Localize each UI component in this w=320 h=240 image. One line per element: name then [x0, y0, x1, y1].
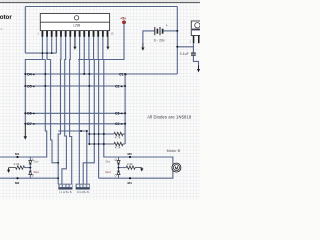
connector J2 (motor B) — [76, 184, 90, 194]
right rail x=125.1 — [124, 74, 126, 144]
chip U1 pins (15) — [42, 31, 109, 37]
wire: pin3 down to net1 — [51, 37, 53, 54]
svg-text:D6◄: D6◄ — [27, 112, 35, 116]
wire: pin12 down, jog left, to connector J2 — [83, 37, 94, 185]
wire: top loop horizontal — [25, 6, 177, 8]
svg-text:4.7k: 4.7k — [115, 136, 121, 140]
tiny LED arrows — [32, 159, 34, 161]
ground symbol at bottom of left rail — [24, 124, 27, 140]
wire from LED mid to resistor R3 — [25, 167, 31, 169]
LED D2 Red — [29, 171, 32, 174]
junction dot + label M2 on bottom wire — [16, 177, 18, 179]
svg-text:L298: L298 — [73, 24, 80, 28]
connector J2 feed from mid net — [86, 131, 88, 184]
junction dots on left rail — [24, 73, 26, 125]
svg-text:C4◄: C4◄ — [115, 122, 123, 126]
svg-text:C2◄: C2◄ — [115, 84, 123, 88]
wire: pin13 down to right LED bottom wire corner — [97, 37, 99, 179]
connector J1 (motor A) — [59, 184, 73, 194]
svg-text:2.2k: 2.2k — [14, 162, 20, 166]
svg-text:All Diodes are 1N5818: All Diodes are 1N5818 — [147, 114, 192, 119]
junction dots on right rail — [124, 73, 126, 125]
net D long wire y=123.8 — [25, 123, 125, 125]
svg-text:+: + — [166, 24, 168, 28]
svg-text:4.7k: 4.7k — [115, 146, 121, 150]
svg-text:Red: Red — [34, 170, 40, 174]
window top strip — [0, 0, 200, 2]
pullup resistor net R1 y=134 — [88, 132, 125, 139]
junction dot + label M1 on top wire — [16, 156, 18, 158]
battery plates — [154, 27, 156, 35]
net label flags near right rail — [115, 72, 127, 126]
wire: right rail of loop from top to net A corner — [176, 7, 178, 75]
LED pair D3/D4 (anti-parallel, right) — [115, 157, 120, 178]
resistor R3 2.2k left — [9, 166, 25, 169]
svg-text:Red: Red — [106, 170, 112, 174]
connector J2 pin labels — [77, 192, 90, 194]
capacitor C1 0.1uF — [180, 43, 200, 72]
mid net y=131 feeding connector J2 — [58, 130, 87, 132]
window top border line — [0, 2, 200, 3]
svg-text:B-: B- — [70, 192, 73, 194]
battery BT1 — [141, 24, 178, 51]
motor M (Motor B) — [167, 149, 181, 172]
svg-text:Grn: Grn — [34, 159, 39, 163]
ground symbol below cap — [198, 66, 200, 70]
LED pair D1/D2 (anti-parallel, left) — [29, 157, 34, 178]
wire: right motor bottom wire y=178.2 to motor B — [99, 170, 173, 178]
wire: pin10 down, ends at net A junction — [83, 37, 85, 74]
svg-text:Grn: Grn — [106, 159, 111, 163]
wire: net1 y=53.1 from left rail to pin4 — [25, 52, 56, 54]
wire: regulator input from battery rail — [177, 46, 193, 48]
wire: pin5 down, jog at mid net, to connector J1 — [58, 37, 61, 185]
LED D1 Grn — [29, 161, 32, 164]
connector J1 pin labels — [60, 192, 73, 194]
svg-text:2.2k: 2.2k — [127, 162, 133, 166]
wire: left rail top segment down to net1 — [24, 7, 26, 54]
battery left wire with corner down — [143, 31, 155, 44]
resistor R2 4.7k zigzag — [114, 142, 125, 145]
chip U1 mounting hole — [74, 16, 78, 20]
junction dots + labels M3/M4 — [129, 156, 131, 158]
ground symbol below pin15 — [106, 37, 109, 50]
svg-text:+5v: +5v — [120, 17, 126, 21]
battery right wire — [164, 30, 178, 32]
svg-text:B-: B- — [87, 192, 90, 194]
svg-text:D5◄: D5◄ — [27, 84, 35, 88]
svg-text:Motor B: Motor B — [167, 149, 181, 153]
wire: +5v down to jog row, left along jog row — [78, 24, 124, 60]
net label flags on left rail — [27, 72, 35, 126]
net A long wire y=74 — [25, 73, 177, 75]
resistor R1 4.7k zigzag — [114, 132, 125, 135]
svg-text:6 - 26v: 6 - 26v — [154, 39, 165, 43]
wire: pin4 down to net1 end — [55, 37, 57, 54]
svg-text:M1: M1 — [15, 152, 19, 156]
pullup resistor net R2 y=144 — [88, 142, 125, 149]
svg-text:D7◄: D7◄ — [27, 122, 35, 126]
junction dots where pin wires end on nets — [42, 52, 91, 179]
wire: pin2 down with jogs to left LED bottom wire corner — [0, 37, 58, 179]
paper background — [0, 0, 200, 200]
resistor R4 2.2k right — [126, 166, 142, 169]
wire: net2 y=59.5 from pin1 vertical to left rail corner, rail down — [25, 60, 45, 124]
svg-text:M3: M3 — [128, 152, 132, 156]
ground symbol right circuit — [140, 168, 143, 172]
svg-text:M2: M2 — [15, 181, 19, 185]
net B long wire y=86 — [25, 85, 125, 87]
regulator U2 pins — [193, 36, 195, 44]
ground symbol below battery minus — [142, 44, 144, 48]
chip U1 L298 body — [37, 14, 114, 36]
svg-text:M: M — [175, 165, 179, 170]
wire LED mid to resistor R4 — [119, 167, 127, 169]
voltage regulator U2 7805 (clipped at right edge) — [191, 21, 205, 43]
wire: supply rail down to right LED top wire corner, to motor B — [104, 60, 173, 166]
+5v power dot — [122, 21, 125, 24]
wire: pin9 straight down to connector J2 pin1 — [78, 37, 80, 185]
net C long wire y=113.3 — [25, 112, 125, 114]
wire: pin14 stub to jog row — [102, 37, 104, 60]
ground symbol left circuit — [7, 168, 10, 173]
ground symbol below pin8 — [73, 37, 76, 50]
wire: pin1 down to net2 — [41, 37, 43, 60]
wire: pin1 net vertical, jog at mid net, to left LED top wire, out left edge — [0, 60, 47, 158]
wire: pin6 down, jogs, to connector J1 — [62, 37, 67, 185]
svg-text:M4: M4 — [128, 181, 132, 185]
wire: pin11 down through nets, ends at R2 net junction — [88, 37, 90, 144]
svg-text:0.1uF: 0.1uF — [180, 52, 189, 56]
wire: pin7 down, jog, to connector J1 — [70, 37, 72, 185]
svg-text:otor: otor — [0, 14, 12, 21]
svg-text:C3◄: C3◄ — [115, 112, 123, 116]
svg-text:D4◄: D4◄ — [27, 72, 35, 76]
